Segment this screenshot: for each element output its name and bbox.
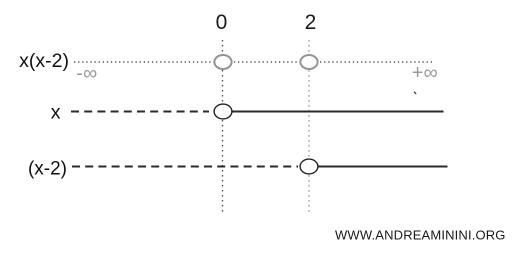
svg-text:-∞: -∞	[76, 62, 97, 84]
vertical dotted line at x=2	[308, 40, 310, 214]
svg-text:(x-2): (x-2)	[28, 159, 67, 180]
circle row2 at 0	[214, 104, 232, 119]
small tick mark	[414, 92, 416, 94]
svg-text:2: 2	[305, 11, 317, 34]
circle row1 at 2	[300, 55, 317, 69]
vertical dotted line at x=0	[222, 40, 224, 214]
circle row3 at 2	[300, 159, 318, 174]
row 1 dotted line	[74, 61, 434, 63]
row 2 dashed line	[71, 111, 209, 113]
svg-text:x: x	[51, 101, 61, 123]
svg-text:0: 0	[216, 11, 228, 34]
svg-text:x(x-2): x(x-2)	[19, 50, 69, 72]
svg-text:+∞: +∞	[412, 62, 438, 84]
row 3 dashed line	[72, 166, 298, 168]
circle row1 at 0	[214, 55, 231, 69]
row 2 solid line	[233, 111, 444, 113]
row 3 solid line	[319, 166, 448, 168]
svg-text:WWW.ANDREAMININI.ORG: WWW.ANDREAMININI.ORG	[335, 227, 506, 242]
